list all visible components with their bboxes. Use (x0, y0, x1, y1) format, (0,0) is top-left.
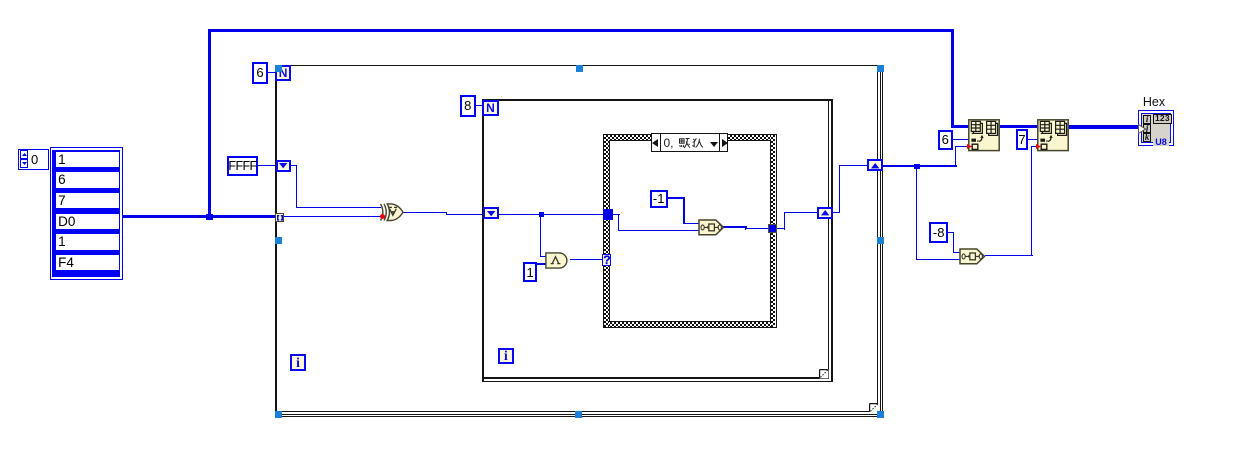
case structure outer outline (603, 134, 777, 328)
wire case left tunnel to rotate1 x input (612, 214, 620, 215)
U2 coercion dot (967, 144, 972, 149)
outer for loop left border (275, 65, 276, 411)
array element 1 (56, 234, 120, 249)
indicator input arrow (1138, 124, 1146, 134)
inner loop left shift register (down arrow) (483, 207, 499, 219)
wire array branch vertical up (208, 29, 211, 218)
wire AND output to case selector (570, 259, 603, 260)
outer loop N terminal (275, 65, 291, 81)
inner loop resize dog-ear (819, 369, 830, 380)
constant 6 (outer loop count) (252, 62, 267, 83)
wire rotate1 output to case right tunnel (723, 226, 747, 227)
wire outer right SR output (882, 165, 957, 166)
123 box (1153, 114, 1171, 124)
wire U2 to U3 (thick array) (1000, 125, 1037, 128)
XOR gate (379, 203, 405, 222)
wire junction on array wire (206, 214, 213, 221)
wire up into replace node U2 bottom input (955, 146, 956, 166)
rotate function (inside case) (698, 219, 725, 236)
junction dot to AND (539, 212, 544, 217)
case selector label box (651, 133, 728, 152)
inner for loop right border (2 lines) (828, 100, 829, 379)
XOR coercion dot (380, 214, 385, 219)
wire 1 to AND bottom input (537, 263, 547, 264)
wire down to AND top input (540, 214, 541, 257)
case structure hatched border band (604, 135, 775, 140)
glyph 认 (692, 138, 703, 149)
i j k index boxes (1143, 115, 1152, 124)
constant -1 (650, 190, 668, 208)
Hex array indicator terminal (1138, 110, 1174, 146)
AND gate (545, 252, 571, 269)
constant 1 (523, 262, 538, 283)
inner loop right shift register (up arrow) (817, 207, 833, 219)
Hex label (1141, 96, 1167, 109)
wire from left shift register to XOR top input (290, 165, 297, 166)
wire array branch along top (208, 29, 955, 32)
wire array branch down right side (951, 29, 954, 128)
U3 coercion dot (1036, 144, 1041, 149)
array element F4 (56, 255, 120, 270)
replace array subset node U3 (1037, 119, 1069, 151)
inner for loop top border (482, 99, 833, 100)
case structure inner outline (609, 140, 771, 322)
wire 7 to U3 index input (1028, 139, 1038, 140)
case selector dropdown triangle (710, 142, 718, 147)
inner for loop bottom border (2 lines) (483, 377, 828, 378)
outer loop iteration terminal i (290, 354, 306, 371)
array element D0 (56, 214, 120, 229)
array constant element grid (52, 150, 119, 278)
constant 6 (right) (938, 130, 953, 150)
outer loop right shift register (up arrow) (867, 159, 883, 171)
array element 6 (56, 172, 120, 187)
case selector decrement arrow (652, 139, 659, 147)
wire rotate2 output up to replace node U3 bottom input (985, 255, 1033, 256)
array constant data wire (thick) from array to indexing tunnel (120, 215, 276, 218)
constant 8 (inner loop count) (460, 95, 476, 116)
array element 7 (56, 193, 120, 208)
case selector increment arrow (721, 139, 728, 147)
case selector text "0, 默认" (664, 137, 674, 150)
constant 7 (1016, 129, 1029, 150)
wire indexed element to XOR bottom input (283, 216, 381, 217)
wire XOR output to inner shift register (403, 212, 447, 213)
U8 type label (1153, 138, 1170, 146)
wire -1 to rotate1 (667, 197, 685, 198)
wire FFFF to left shift register (257, 165, 277, 166)
glyph 默 (679, 138, 690, 149)
outer loop resize dog-ear (869, 403, 880, 414)
inner for loop left border (482, 99, 483, 381)
constant -8 (929, 222, 948, 243)
wire inner SR to case tunnel (498, 214, 604, 215)
wire junction down to rotate2 (916, 165, 917, 260)
wire 8 to inner loop N (475, 105, 483, 106)
junction on output wire (914, 164, 920, 170)
rotate function (outside, right) (959, 248, 986, 265)
inner loop iteration terminal i (498, 348, 514, 364)
replace array subset node U2 (968, 119, 1000, 151)
selection handles (cyan) (275, 65, 282, 72)
wire case right tunnel to inner right SR (777, 228, 785, 229)
wire -8 to rotate2 n input (948, 232, 954, 233)
array index control (18, 149, 49, 170)
case selector terminal ? (602, 254, 611, 266)
wire array into replace-node U2 (951, 125, 969, 128)
inner loop N terminal (482, 100, 498, 116)
case left tunnel (blue square) (603, 209, 614, 220)
outer for loop bottom border (3 lines) (276, 411, 883, 412)
wire U3 to Hex indicator (thick array) (1068, 125, 1139, 128)
outer for loop right border (3 lines) (877, 66, 878, 416)
wire 6 to outer loop N (267, 72, 276, 73)
case right tunnel (blue square, olive border) (768, 224, 778, 233)
constant FFFF (227, 156, 258, 176)
array element 1 (56, 152, 120, 167)
outer for loop top border (275, 65, 877, 66)
wire inner right SR to outer right SR (832, 212, 840, 213)
indexing tunnel [] (275, 213, 285, 222)
array constant outer shell (50, 147, 123, 280)
wire 6 to U2 index input (952, 139, 969, 140)
left shift register (down arrow) (276, 160, 292, 172)
